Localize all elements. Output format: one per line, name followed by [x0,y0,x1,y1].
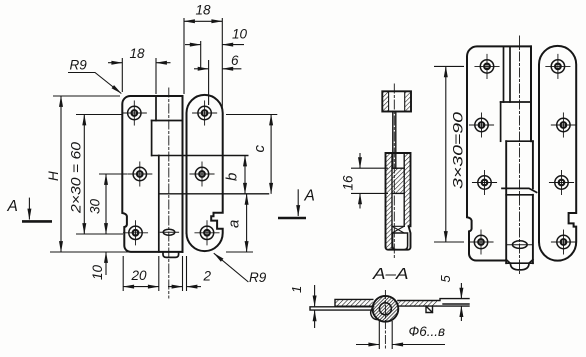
screw hole R3 [195,221,219,245]
svg-text:3×30=90: 3×30=90 [451,111,466,189]
dim c extension top [226,114,277,116]
dim 18 top line [184,20,222,22]
aa curled lip lower-left [371,307,379,320]
svg-text:c: c [251,145,268,153]
right strip outline [187,95,223,251]
dim 18 top: extension lines [183,18,185,94]
dim 2 extensions [182,256,184,291]
rv pin oval [512,241,527,249]
svg-text:1: 1 [289,286,304,293]
pin neck [392,112,394,169]
socket bottom line [392,192,404,194]
rv pin bottom cap [510,263,529,270]
rv pin col right edge lower [532,195,534,263]
rv hole R3 [549,170,573,194]
left view pin centerline [168,88,170,298]
knuckle step horizontal [152,120,183,122]
dim 6 extension [208,60,210,105]
rv step horizontal 1 [501,101,531,103]
rv hole L1 [475,54,499,78]
aa knuckle centerline [384,291,386,349]
screw hole L1 [122,101,146,125]
knuckle left edge mid [151,121,153,156]
knuckle seam left card [155,96,157,121]
svg-text:30: 30 [88,198,103,214]
aa dim 5 arrows [460,283,462,299]
dim 6 line with outside arrows [194,68,209,70]
svg-text:5: 5 [438,275,453,283]
aa lower plate left [310,307,374,310]
svg-text:R9: R9 [249,270,267,285]
svg-text:2×30 = 60: 2×30 = 60 [69,141,84,214]
aa upper band left hatched [335,299,373,306]
dim 2x30=60 extensions [76,114,122,116]
bottom inner cup [393,233,408,250]
svg-text:10: 10 [90,264,105,280]
dim 16 extensions [351,167,388,169]
svg-text:18: 18 [196,3,212,18]
screw hole R1 [193,101,217,125]
R9 top leader [68,73,121,94]
rv hole L3 [472,170,496,194]
dim 2x30=60 line [83,115,85,235]
rv seam line 2 [509,46,511,102]
dim 16 arrows outside [359,153,361,168]
inner plate top edge + b extension [152,155,248,157]
svg-text:18: 18 [130,46,146,61]
svg-text:A: A [304,188,315,205]
R9 bottom leader [214,253,249,282]
dim H line [60,96,62,252]
aa phi extensions [378,321,380,349]
dim 18 left: extensions [121,58,123,92]
rv hole R2 [551,113,575,137]
dim 10 top extension [200,41,202,70]
dim 30 extension [99,173,127,175]
pin oval cross line [160,231,178,233]
rv joint line lower [506,194,533,196]
top block left wall hatch [382,91,388,111]
body inner wall lines [391,153,393,250]
svg-text:16: 16 [341,175,356,191]
top block outline [382,91,411,111]
socket top line [392,167,404,169]
rv centerline [519,36,521,275]
rv step horizontal 2 [506,140,533,142]
body outline [386,153,411,250]
aa knuckle hatch disc [373,296,398,321]
bottom cross band [392,226,404,233]
body right wall hatch [404,153,410,226]
rv dim 3x30=90 line [445,66,447,242]
svg-text:20: 20 [131,268,148,283]
dim 18 left line, outside arrows [108,62,122,64]
rv left edge mid [500,102,502,141]
rv column bottom face with chamfers [506,260,533,264]
knuckle right edge [182,96,184,252]
aa phi dim arrows [356,344,379,346]
svg-text:Ф6...в: Ф6...в [409,324,446,339]
screw hole R2 [190,162,214,186]
dim H extensions [53,95,120,97]
aa knuckle outer circle [373,296,399,322]
svg-text:H: H [46,171,61,181]
dim 30 line [105,174,107,234]
svg-text:6: 6 [231,53,239,68]
pin bottom end cap [163,252,179,258]
left leaf outline [122,96,182,252]
rv hole R4 [551,230,575,254]
body left wall hatch [386,153,393,250]
dim 20 extensions [122,256,124,291]
svg-text:b: b [224,173,241,181]
svg-text:R9: R9 [70,58,88,73]
dim 10 top line with outside arrows [185,44,201,46]
rv seam line 1 [503,46,505,102]
rv pin col left edge [505,141,507,263]
dim a line [246,194,248,252]
svg-text:A: A [7,198,18,215]
rv hole R1 [546,54,570,78]
aa pin inner circle [379,303,391,315]
rv pin oval crossline [506,244,533,246]
dim 2 line outside arrows [168,286,183,288]
screw hole L2 [128,162,152,186]
top block right wall hatch [405,91,411,111]
pin bottom oval [163,229,175,235]
aa dim 1 arrows [314,285,316,306]
rv knuckle right edge top [530,46,532,141]
svg-text:a: a [226,220,243,228]
dim a extension bottom [226,251,253,253]
inner plate bottom edge + a/c extension [159,193,269,195]
dim 10 bottom line [105,252,107,275]
dim b line [244,156,246,194]
rv pin col right edge [532,141,534,188]
section arrow right [278,217,306,220]
aa hook tab [426,306,433,312]
inner plate left edge [158,156,160,252]
dim c line [270,115,272,194]
svg-text:A–A: A–A [372,266,409,283]
rv joint line upper [502,188,537,192]
dim 20 line [123,286,159,288]
rv right strip outline [539,46,576,261]
aa right band [398,299,469,307]
screw hole L3 [123,221,147,245]
section arrow left [22,220,52,223]
rv hole L2 [469,113,493,137]
right view left card outline [467,46,531,260]
svg-text:10: 10 [232,27,248,42]
rv hole L4 [469,230,493,254]
middle view centerline [393,84,395,260]
socket plug hatch [392,168,404,193]
svg-text:2: 2 [203,269,212,284]
rv dim extensions [434,65,464,67]
